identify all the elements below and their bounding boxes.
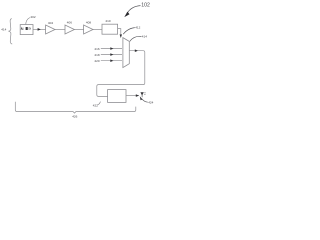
amplifier 406 xyxy=(65,25,74,34)
wire amp406 to amp408 xyxy=(74,29,83,31)
svg-text:408: 408 xyxy=(86,20,91,24)
box 402 interior glyph right xyxy=(29,27,30,30)
svg-text:410: 410 xyxy=(105,19,110,23)
wire mux output to box422 xyxy=(97,49,145,96)
svg-text:402: 402 xyxy=(30,15,35,19)
label 422 xyxy=(93,102,101,108)
combiner mux xyxy=(123,38,129,68)
box 410 xyxy=(102,24,118,34)
amplifier 408 xyxy=(84,25,93,34)
svg-text:424: 424 xyxy=(148,101,153,105)
label 102 xyxy=(124,3,150,18)
svg-text:102: 102 xyxy=(141,3,150,9)
brace 414 xyxy=(1,19,12,44)
label 402 xyxy=(26,15,36,24)
svg-text:420: 420 xyxy=(94,59,99,63)
svg-text:426: 426 xyxy=(72,115,77,119)
label 416 with input arrow xyxy=(94,47,122,51)
antenna 424 symbol xyxy=(140,92,145,97)
label 414 (mux) xyxy=(130,35,147,42)
svg-text:422: 422 xyxy=(93,103,98,107)
amplifier 404 xyxy=(46,25,55,34)
svg-text:406: 406 xyxy=(67,21,72,25)
wire 402 to amp404 with arrowhead xyxy=(33,28,45,31)
box 402 interior blob xyxy=(26,27,28,30)
wire amp408 to box410 xyxy=(93,29,102,31)
svg-text:418: 418 xyxy=(94,53,99,57)
label 418 with input arrow xyxy=(94,53,122,57)
wire box422 to antenna with arrowhead xyxy=(126,94,139,97)
wire amp404 to amp406 xyxy=(55,29,65,31)
svg-text:416: 416 xyxy=(94,47,99,51)
label 412 xyxy=(123,26,140,35)
wire box410 to mux with down arrowhead xyxy=(118,29,122,38)
svg-text:404: 404 xyxy=(48,21,53,25)
svg-text:414: 414 xyxy=(142,35,147,39)
box 402 xyxy=(20,25,33,35)
box 422 xyxy=(108,90,126,103)
ground return wire 426 xyxy=(15,102,136,113)
box 402 interior glyph left xyxy=(21,28,23,31)
svg-text:414: 414 xyxy=(1,27,6,31)
label 424 xyxy=(140,96,154,104)
label 420 with input arrow xyxy=(94,59,122,63)
svg-text:412: 412 xyxy=(135,26,140,30)
